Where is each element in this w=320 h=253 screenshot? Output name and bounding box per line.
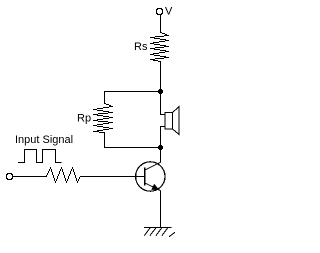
terminal V+	[156, 9, 163, 15]
terminal input	[6, 174, 13, 180]
square wave icon	[18, 150, 62, 163]
node junction top	[158, 90, 163, 94]
resistor R1	[46, 168, 81, 183]
wire	[13, 176, 46, 178]
wire	[160, 191, 162, 228]
resistor Rp	[93, 104, 113, 133]
wire	[105, 92, 161, 104]
wire	[161, 92, 165, 115]
resistor Rs	[150, 33, 169, 62]
wire	[160, 15, 162, 33]
wire	[81, 176, 145, 178]
speaker LS1	[165, 107, 179, 135]
wire	[161, 127, 165, 148]
svg-text:V: V	[165, 6, 173, 18]
svg-text:Rp: Rp	[77, 113, 91, 125]
svg-text:Rs: Rs	[134, 41, 148, 53]
svg-text:Input Signal: Input Signal	[15, 134, 73, 146]
wire	[160, 61, 162, 91]
wire	[160, 148, 162, 163]
node junction bottom	[158, 146, 163, 150]
transistor Q1	[136, 162, 165, 191]
ground	[144, 228, 175, 237]
wire	[105, 133, 161, 148]
